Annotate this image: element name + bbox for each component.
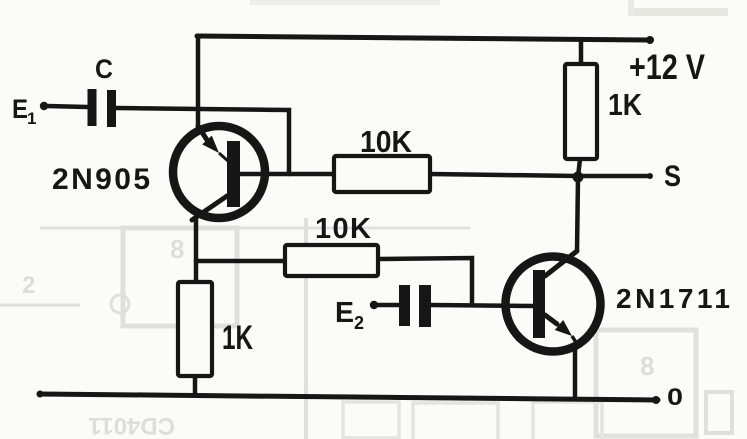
svg-text:C: C xyxy=(95,54,113,84)
svg-text:1K: 1K xyxy=(222,319,253,357)
svg-text:10K: 10K xyxy=(360,124,413,159)
svg-text:E: E xyxy=(12,94,28,124)
svg-text:1: 1 xyxy=(27,109,36,128)
svg-text:2: 2 xyxy=(354,313,364,333)
svg-text:CD4011: CD4011 xyxy=(88,412,175,439)
svg-text:1K: 1K xyxy=(608,87,643,122)
svg-text:8: 8 xyxy=(640,351,654,381)
svg-text:2: 2 xyxy=(22,272,35,299)
svg-text:E: E xyxy=(335,297,354,329)
svg-text:0: 0 xyxy=(667,384,683,411)
svg-text:10K: 10K xyxy=(315,213,371,245)
svg-text:+12 V: +12 V xyxy=(629,48,706,87)
svg-text:8: 8 xyxy=(170,234,184,264)
svg-text:2N905: 2N905 xyxy=(52,163,150,196)
svg-text:S: S xyxy=(664,160,681,193)
